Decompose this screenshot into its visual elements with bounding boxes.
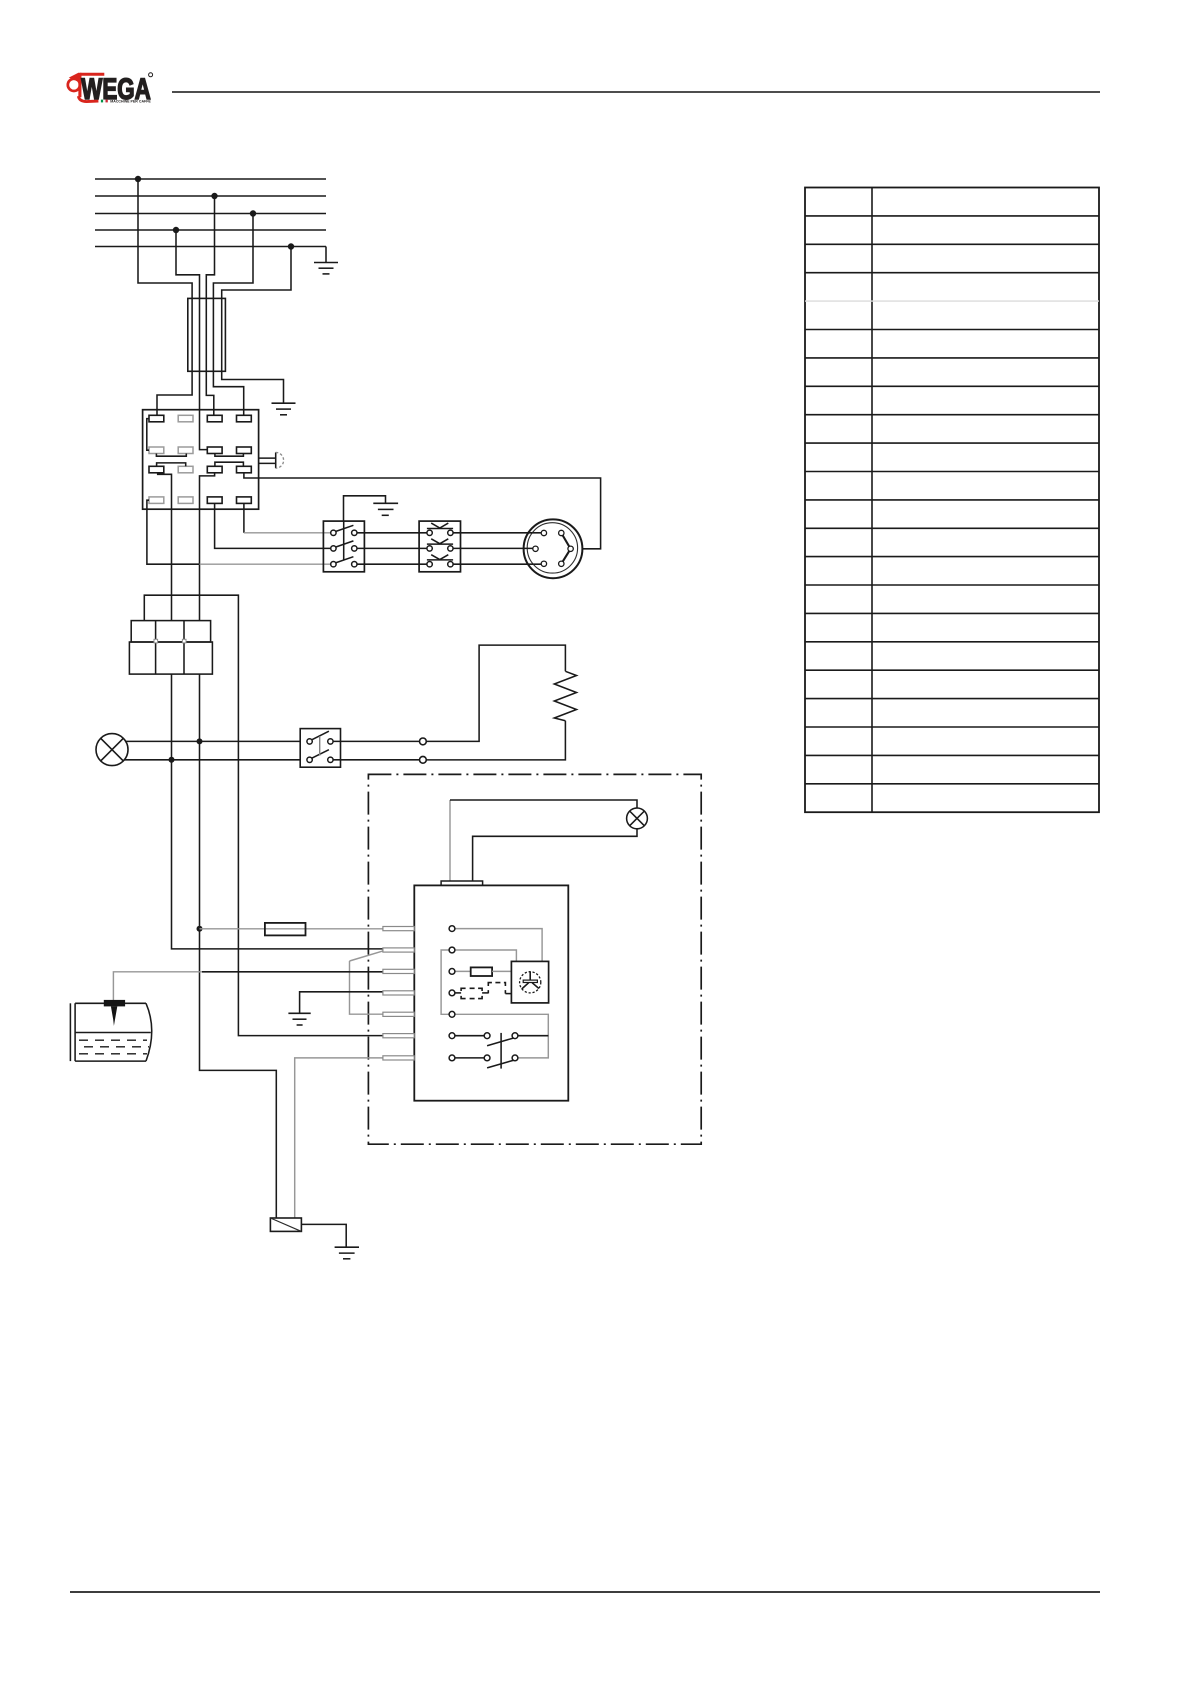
A1 pressure switch symbol <box>520 972 541 993</box>
ground (sensor) <box>335 1247 359 1259</box>
fuse block F1 top row <box>131 621 210 642</box>
A1 internal wire c3 to resistor <box>455 970 471 972</box>
wire chimney to lamp H2 (up) <box>449 800 451 881</box>
wire K1 to motor W <box>453 563 543 565</box>
wire diagonal to pin2 <box>350 951 384 961</box>
wire fuse bracket and bypass to pin6 <box>144 595 383 1035</box>
A1 wire bump to pressure switch <box>505 993 511 995</box>
A1 thermostat (dashed) <box>461 988 482 998</box>
wire L1 to switch T1 <box>138 179 192 415</box>
supply line L3 <box>95 213 326 215</box>
A1 wire resistor to pressure switch <box>492 970 511 972</box>
S3 contact circles <box>307 739 333 763</box>
wire T13 to switch S2 row3 <box>200 563 332 565</box>
connector pin 1 <box>383 927 414 931</box>
fuse clip marks <box>154 639 158 643</box>
wire terminal A to heating element <box>426 645 565 741</box>
terminal A <box>420 738 427 745</box>
wire S2 to K1 row2 <box>357 547 428 549</box>
junction dot pin1 node <box>197 926 203 932</box>
motor M1 inner circle <box>527 523 577 573</box>
legend table <box>805 188 1099 813</box>
junction dot L3 <box>250 210 256 216</box>
A1 contact row2 wire <box>455 1057 484 1059</box>
svg-text:MACCHINE PER CAFFÈ: MACCHINE PER CAFFÈ <box>110 99 151 104</box>
connector pin 2 <box>383 948 414 952</box>
terminal B <box>420 756 427 763</box>
A1 resistor <box>471 967 492 976</box>
connector pin 6 <box>383 1034 414 1038</box>
Q1 terminal T14 <box>178 497 193 504</box>
A1 contact lever row2 <box>487 1060 513 1068</box>
Q1 terminal T9 <box>149 466 164 473</box>
wire K1 to motor V <box>453 547 534 549</box>
wire down to pin5 <box>350 961 384 1014</box>
S2 contact circles <box>331 530 357 567</box>
Q1 terminal T2 <box>178 415 193 422</box>
A1 terminal circles <box>449 926 518 1061</box>
control box A1 chimney <box>441 881 483 885</box>
wire L3 to switch T4 <box>213 214 253 416</box>
junction dot lamp top line <box>197 738 203 744</box>
Q1 terminal T6 <box>178 447 193 454</box>
lamp H2 <box>627 808 648 829</box>
supply line PE <box>95 246 326 248</box>
K1 row3 contact <box>427 555 453 560</box>
A1 internal wire c2-c5 link <box>441 950 449 1014</box>
fuse F2 <box>265 923 306 936</box>
connector pin 7 <box>383 1056 414 1060</box>
A1 wire thermostat link <box>482 992 488 994</box>
motor terminal circles <box>533 530 574 566</box>
wire PE to earth <box>222 247 291 404</box>
Q1 terminal T7 <box>207 447 222 454</box>
Q1 terminal T3 <box>207 415 222 422</box>
wire lamp bottom line <box>124 759 300 761</box>
footer rule <box>70 1591 1100 1593</box>
wire fuse3 down to pin1 node and sensor <box>200 674 277 1218</box>
A1 contact link <box>500 1033 502 1069</box>
A1 internal wire c5 to contact row2 <box>455 1014 548 1058</box>
wire fuse2 to lamp line and pin2 <box>172 674 384 949</box>
ground (mains PE) <box>314 247 338 274</box>
K1 contact circles <box>427 530 453 567</box>
wire pin7 to sensor <box>295 1058 383 1218</box>
fuse block F1 bottom row <box>129 642 212 674</box>
S2 actuator link <box>343 521 345 560</box>
wire S2 to K1 row3 <box>357 563 428 565</box>
Q1 link T11 down <box>200 473 215 621</box>
S3 lever row2 <box>312 750 329 759</box>
WEGA logo <box>68 73 153 106</box>
Q1 terminal T10 <box>178 466 193 473</box>
Q1 link T9 down <box>158 473 172 621</box>
lamp H1 <box>96 734 128 766</box>
A1 contact lever row1 <box>487 1038 513 1046</box>
wire lamp H2 return <box>473 829 637 881</box>
junction dot N <box>173 227 179 233</box>
Q1 terminal T11 <box>207 466 222 473</box>
boiler boundary <box>368 774 701 1144</box>
Q1 terminal T12 <box>237 466 252 473</box>
cable sleeve <box>188 298 226 371</box>
tank water dashes <box>79 1040 149 1054</box>
wire L2 to switch T3 <box>206 196 214 415</box>
wire sensor to ground <box>301 1224 346 1247</box>
Q1 handle shaft <box>259 458 276 463</box>
A1 contact row1 wire <box>455 1035 484 1037</box>
A1 wire c4 to thermostat <box>455 992 461 994</box>
S2 lever row3 <box>336 557 354 563</box>
Q1 terminal T4 <box>237 415 252 422</box>
S3 lever row1 <box>312 731 329 740</box>
S2 lever row1 <box>336 525 354 531</box>
wire S2 to K1 row1 <box>357 532 428 534</box>
wire T13 down <box>147 500 200 564</box>
wire K1 to motor U <box>453 532 543 534</box>
A1 pressure switch box <box>511 961 548 1003</box>
A1 capillary bump (dashed) <box>488 983 505 994</box>
contact block K1 body <box>419 521 460 572</box>
S3 actuator link <box>319 736 321 755</box>
Q1 terminal T16 <box>237 497 252 504</box>
wire T15 to switch S2 row2 <box>215 503 331 548</box>
wire node to pin1 <box>200 928 384 930</box>
Q1 bridge T9-T10 <box>157 463 186 466</box>
ground (control box) <box>288 1013 310 1025</box>
wire T16 down <box>243 503 245 532</box>
wire T12 to motor star point <box>244 473 601 549</box>
Q1 terminal T15 <box>207 497 222 504</box>
Q1 bridge T11-T12 <box>215 462 244 466</box>
motor M1 outer circle <box>524 519 583 578</box>
Q1 terminal T1 <box>149 415 164 422</box>
wire heating element to terminal B <box>426 721 565 760</box>
supply line N <box>95 229 326 231</box>
control box A1 body <box>414 885 568 1100</box>
junction dot L1 <box>135 176 141 182</box>
Q1 terminal T13 <box>149 497 164 504</box>
wire pin4 to ground <box>300 992 383 1013</box>
motor star links <box>561 533 570 564</box>
Q1 bridge T7-T8 <box>215 454 244 457</box>
junction dot PE <box>288 243 294 249</box>
Q1 bridge T5-T6 <box>156 454 186 457</box>
connector pin 4 <box>383 991 414 995</box>
S2 lever row2 <box>336 541 354 547</box>
heating element R1 <box>554 671 576 721</box>
wire T16 to switch S2 row1 <box>244 532 331 534</box>
switch S2 (3-pole) body <box>323 521 364 572</box>
Q1 link T1-T5 <box>147 419 149 451</box>
junction dot L2 <box>211 193 217 199</box>
main switch Q1 body <box>143 410 259 510</box>
switch S3 body <box>300 729 340 768</box>
A1 internal wire c2 to pressure switch <box>455 950 517 961</box>
supply line L2 <box>95 195 326 197</box>
header rule <box>172 91 1100 93</box>
Q1 terminal T5 <box>149 447 164 454</box>
A1 contact row1 out <box>518 1035 548 1037</box>
wire S3 to terminal B <box>333 759 419 761</box>
connector pin 5 <box>383 1012 414 1016</box>
connector pin 3 <box>383 969 414 973</box>
wire N to switch T7 <box>176 230 208 450</box>
supply line L1 <box>95 178 326 180</box>
tank <box>70 1003 151 1061</box>
tank level probe <box>104 1000 125 1007</box>
wire S3 to terminal A <box>333 740 419 742</box>
level sensor <box>270 1218 301 1231</box>
junction dot lamp bottom line <box>169 757 175 763</box>
Q1 terminal T8 <box>237 447 252 454</box>
K1 row1 contact <box>427 523 453 528</box>
A1 internal wire c1 to pressure switch <box>455 929 542 962</box>
wire lamp top line <box>126 740 300 742</box>
ground (cable earth) <box>272 403 296 415</box>
K1 row2 contact <box>427 539 453 544</box>
Q1 handle knob <box>275 452 277 468</box>
ground (switch S2 actuator) <box>344 496 399 521</box>
wire tank probe to pin3 <box>113 972 202 1000</box>
